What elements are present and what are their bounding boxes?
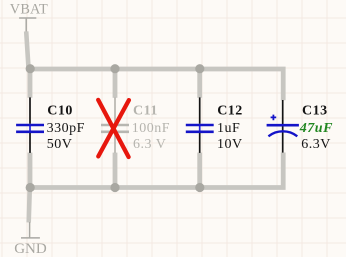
svg-text:C13: C13 <box>302 104 328 119</box>
wire bottom bus to GND <box>29 188 30 223</box>
svg-text:10V: 10V <box>217 137 243 152</box>
C10 labels <box>47 104 85 153</box>
capacitor C10 <box>16 97 44 152</box>
C13 labels <box>299 104 333 153</box>
junction bottom col2 <box>110 183 119 192</box>
C11 labels (grayed) <box>132 104 170 153</box>
junction bottom col3 <box>195 183 204 192</box>
no-fit cross over C11 <box>98 100 129 157</box>
svg-text:C10: C10 <box>47 104 73 119</box>
svg-text:VBAT: VBAT <box>10 2 48 18</box>
junction bottom col1 <box>26 183 35 192</box>
wire col2 bottom stub <box>113 153 118 189</box>
junction top col2 <box>110 64 119 73</box>
wire VBAT to top bus <box>26 31 30 68</box>
wire col3 bottom stub <box>197 153 202 189</box>
svg-text:GND: GND <box>14 241 47 257</box>
capacitor C12 <box>186 97 214 152</box>
svg-text:C12: C12 <box>217 104 243 119</box>
C12 labels <box>217 104 243 153</box>
wire bottom bus with right corner <box>30 153 283 188</box>
svg-text:1uF: 1uF <box>217 121 240 136</box>
polarized capacitor C13 <box>267 100 299 153</box>
wire col1 bottom stub <box>28 153 33 188</box>
junction top col3 <box>195 64 204 73</box>
svg-text:C11: C11 <box>133 104 158 119</box>
junction top col1 <box>26 64 35 73</box>
power port VBAT <box>19 18 36 32</box>
svg-text:330pF: 330pF <box>47 121 85 136</box>
svg-text:50V: 50V <box>47 137 73 152</box>
ground symbol GND <box>21 222 40 238</box>
capacitor C11 (not fitted, grayed) <box>101 97 129 152</box>
wire col1 top stub <box>28 69 33 98</box>
svg-text:47uF: 47uF <box>299 121 333 136</box>
svg-text:100nF: 100nF <box>132 121 170 136</box>
wire col2 top stub <box>113 67 118 98</box>
svg-text:6.3 V: 6.3 V <box>133 137 166 152</box>
svg-text:6.3V: 6.3V <box>301 137 331 152</box>
wire top bus with right corner <box>30 69 283 100</box>
wire col3 top stub <box>197 67 202 98</box>
